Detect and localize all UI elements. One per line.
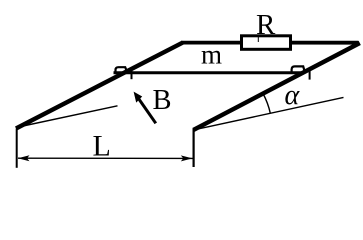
dimension line L xyxy=(18,157,193,159)
vector B arrowhead xyxy=(134,92,143,103)
svg-text:α: α xyxy=(285,80,301,111)
dimension arrowhead right xyxy=(181,155,193,161)
rail right (thick inclined) xyxy=(193,43,359,130)
slider contact left (hump) xyxy=(116,67,127,74)
baseline thin left xyxy=(16,106,118,128)
wire top connecting rails through resistor xyxy=(181,41,358,45)
svg-text:L: L xyxy=(93,130,111,163)
rod m (conductor across rails) xyxy=(114,71,305,74)
svg-text:B: B xyxy=(153,85,172,116)
angle arc alpha xyxy=(263,94,270,114)
vector B arrow shaft xyxy=(139,99,156,124)
baseline thin right xyxy=(193,97,343,130)
slider contact right (hump) xyxy=(292,66,305,74)
dimension arrowhead left xyxy=(18,155,30,161)
slider tick right xyxy=(309,71,311,80)
slider tick left xyxy=(131,71,133,79)
svg-text:R: R xyxy=(256,9,276,41)
extension line right vertical xyxy=(193,129,195,167)
rail left (thick inclined) xyxy=(16,42,183,128)
svg-text:m: m xyxy=(201,40,222,70)
resistor R box xyxy=(242,36,291,50)
tick under R xyxy=(257,35,259,42)
extension line left vertical xyxy=(16,129,18,168)
